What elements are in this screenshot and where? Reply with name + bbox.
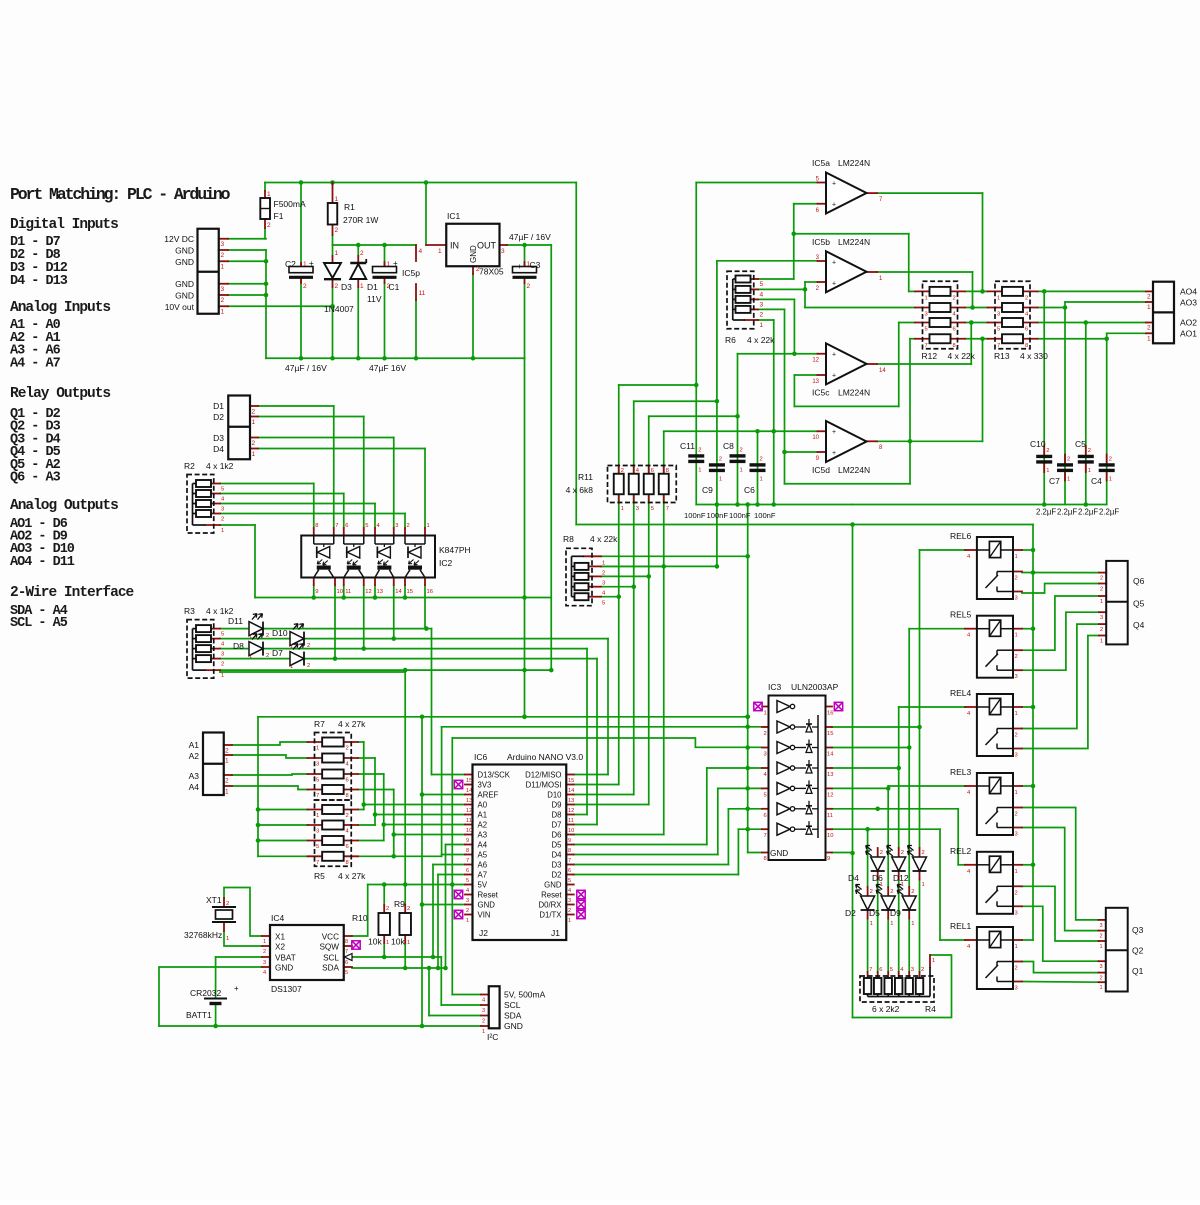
svg-text:+: + (832, 372, 836, 379)
svg-text:2.2µF: 2.2µF (1057, 508, 1077, 517)
svg-text:13: 13 (568, 798, 574, 804)
svg-text:A3: A3 (189, 771, 200, 781)
svg-text:5: 5 (221, 487, 224, 493)
svg-text:4 x 22k: 4 x 22k (948, 351, 976, 361)
svg-text:7: 7 (764, 833, 767, 839)
svg-text:12: 12 (812, 358, 819, 364)
svg-text:D8: D8 (233, 641, 244, 651)
svg-text:2: 2 (335, 283, 339, 290)
svg-text:13: 13 (812, 379, 819, 385)
svg-text:R3: R3 (184, 606, 195, 616)
svg-text:2: 2 (921, 967, 924, 973)
svg-text:IC5p: IC5p (402, 268, 420, 278)
svg-text:2: 2 (221, 252, 225, 259)
svg-text:A1: A1 (478, 811, 488, 820)
svg-text:2: 2 (1100, 576, 1103, 582)
svg-text:IC2: IC2 (439, 558, 453, 568)
svg-text:2: 2 (346, 813, 349, 819)
svg-text:1: 1 (335, 196, 339, 203)
svg-text:1: 1 (1088, 468, 1091, 474)
svg-text:1: 1 (1015, 869, 1018, 875)
svg-text:6: 6 (345, 523, 348, 529)
svg-text:47µF 16V: 47µF 16V (369, 363, 406, 373)
svg-text:1: 1 (387, 261, 391, 268)
svg-text:1: 1 (1046, 468, 1049, 474)
svg-text:REL5: REL5 (950, 610, 972, 620)
svg-text:R10: R10 (352, 913, 368, 923)
svg-text:4 x 1k2: 4 x 1k2 (206, 606, 234, 616)
svg-text:6: 6 (568, 868, 571, 874)
svg-text:2: 2 (387, 283, 391, 290)
svg-text:2: 2 (221, 517, 224, 523)
svg-text:1: 1 (932, 958, 935, 964)
svg-text:7: 7 (316, 860, 319, 866)
svg-text:1: 1 (1015, 944, 1018, 950)
svg-text:Q4: Q4 (1133, 620, 1145, 630)
svg-text:3: 3 (395, 523, 398, 529)
svg-text:REL4: REL4 (950, 688, 972, 698)
svg-text:IC5c: IC5c (812, 387, 830, 397)
svg-text:D10: D10 (547, 791, 562, 800)
svg-text:2: 2 (407, 906, 410, 912)
svg-text:12V DC: 12V DC (164, 234, 194, 244)
svg-text:15: 15 (466, 778, 472, 784)
svg-text:Q1: Q1 (1132, 966, 1144, 976)
svg-text:D3: D3 (213, 433, 224, 443)
svg-text:+: + (832, 429, 836, 436)
svg-text:2: 2 (386, 906, 389, 912)
svg-text:SDA: SDA (504, 1011, 522, 1021)
svg-text:2: 2 (1100, 627, 1103, 633)
svg-text:D2: D2 (845, 908, 856, 918)
svg-text:1: 1 (764, 711, 767, 717)
svg-text:14: 14 (827, 752, 834, 758)
svg-text:D5: D5 (552, 841, 563, 850)
svg-text:2: 2 (1046, 448, 1049, 454)
svg-text:GND: GND (504, 1021, 523, 1031)
svg-text:Analog Inputs: Analog Inputs (10, 300, 110, 316)
svg-text:1: 1 (740, 468, 743, 474)
svg-text:+: + (832, 202, 836, 209)
svg-text:1: 1 (290, 664, 293, 670)
svg-text:Port Matching: PLC - Arduino: Port Matching: PLC - Arduino (10, 185, 231, 204)
svg-text:1: 1 (911, 921, 914, 927)
svg-text:2: 2 (346, 746, 349, 752)
svg-text:6: 6 (346, 844, 349, 850)
svg-text:11: 11 (568, 818, 574, 824)
svg-text:13: 13 (466, 798, 472, 804)
svg-text:3: 3 (1015, 986, 1018, 992)
svg-text:1: 1 (427, 523, 430, 529)
svg-text:3: 3 (316, 829, 319, 835)
svg-text:1: 1 (1015, 633, 1018, 639)
svg-text:A3: A3 (478, 831, 488, 840)
svg-text:11: 11 (466, 818, 472, 824)
svg-text:SCL: SCL (504, 1000, 521, 1010)
svg-text:2: 2 (1088, 448, 1091, 454)
svg-text:5: 5 (997, 327, 1000, 333)
svg-text:5: 5 (345, 970, 348, 976)
svg-text:3: 3 (221, 507, 224, 513)
svg-text:11V: 11V (367, 294, 382, 304)
svg-text:100nF: 100nF (707, 511, 729, 520)
svg-text:2: 2 (266, 653, 269, 659)
svg-text:1: 1 (870, 921, 873, 927)
svg-text:C10: C10 (1030, 439, 1046, 449)
svg-text:D3: D3 (552, 861, 562, 870)
svg-text:5: 5 (890, 967, 893, 973)
svg-text:1: 1 (568, 918, 571, 924)
svg-text:1: 1 (698, 468, 701, 474)
svg-text:LM224N: LM224N (838, 237, 870, 247)
svg-text:SDA: SDA (322, 964, 339, 973)
svg-text:XT1: XT1 (206, 895, 222, 905)
svg-text:1: 1 (225, 758, 229, 765)
svg-text:3: 3 (568, 898, 571, 904)
svg-text:2: 2 (252, 409, 256, 416)
svg-text:R5: R5 (314, 871, 325, 881)
svg-text:1: 1 (360, 283, 364, 290)
svg-text:5: 5 (466, 878, 469, 884)
svg-text:1: 1 (925, 295, 928, 301)
svg-text:5: 5 (316, 844, 319, 850)
svg-text:1: 1 (1015, 711, 1018, 717)
svg-text:GND: GND (469, 245, 478, 263)
svg-text:2.2µF: 2.2µF (1078, 508, 1098, 517)
svg-text:2: 2 (1015, 576, 1018, 582)
svg-text:11: 11 (827, 813, 833, 819)
svg-text:8: 8 (764, 856, 767, 862)
svg-text:9: 9 (466, 838, 469, 844)
svg-text:D3: D3 (341, 282, 352, 292)
svg-text:C4: C4 (1091, 476, 1102, 486)
svg-text:D4: D4 (848, 873, 859, 883)
svg-text:1: 1 (225, 789, 229, 796)
svg-text:12: 12 (568, 808, 574, 814)
svg-text:3V3: 3V3 (478, 781, 492, 790)
svg-text:6: 6 (1025, 327, 1028, 333)
svg-text:4 x 27k: 4 x 27k (338, 871, 366, 881)
svg-text:3: 3 (925, 312, 928, 318)
svg-text:4: 4 (568, 888, 571, 894)
svg-text:REL1: REL1 (950, 921, 972, 931)
svg-text:12: 12 (827, 792, 833, 798)
svg-text:5: 5 (602, 601, 605, 607)
svg-text:7: 7 (925, 343, 928, 349)
svg-text:5: 5 (925, 327, 928, 333)
svg-text:100nF: 100nF (729, 511, 751, 520)
svg-text:2: 2 (568, 908, 571, 914)
svg-text:2: 2 (303, 283, 307, 290)
svg-text:A1: A1 (189, 740, 200, 750)
svg-text:5: 5 (316, 778, 319, 784)
svg-text:GND: GND (175, 291, 194, 301)
svg-text:4 x 6k8: 4 x 6k8 (566, 485, 594, 495)
svg-text:5: 5 (760, 281, 764, 288)
svg-text:5: 5 (221, 632, 224, 638)
svg-text:Q6 - A3: Q6 - A3 (10, 471, 61, 486)
svg-text:IC5b: IC5b (812, 237, 830, 247)
svg-text:1: 1 (226, 936, 229, 942)
svg-text:6: 6 (764, 813, 767, 819)
svg-text:2: 2 (1015, 654, 1018, 660)
svg-text:IN: IN (450, 241, 459, 251)
svg-text:4: 4 (482, 998, 485, 1004)
svg-text:15: 15 (568, 778, 574, 784)
svg-text:+: + (393, 259, 398, 268)
svg-text:A4: A4 (189, 782, 200, 792)
svg-text:Q2: Q2 (1132, 946, 1144, 956)
svg-text:11: 11 (419, 290, 426, 297)
svg-text:1: 1 (407, 940, 410, 946)
svg-text:1: 1 (1147, 335, 1151, 342)
svg-text:3: 3 (764, 752, 767, 758)
svg-text:2: 2 (225, 748, 229, 755)
svg-text:6: 6 (346, 778, 349, 784)
svg-text:1: 1 (1015, 790, 1018, 796)
svg-text:14: 14 (395, 589, 402, 595)
svg-text:SCL - A5: SCL - A5 (10, 616, 68, 631)
svg-text:5: 5 (764, 792, 767, 798)
svg-text:REL2: REL2 (950, 846, 972, 856)
svg-text:+: + (832, 181, 836, 188)
svg-text:1: 1 (1109, 477, 1112, 483)
svg-text:5V: 5V (478, 881, 488, 890)
svg-text:AO3: AO3 (1180, 298, 1197, 308)
svg-text:D1/TX: D1/TX (539, 911, 562, 920)
svg-text:R4: R4 (925, 1004, 936, 1014)
svg-text:3: 3 (1015, 674, 1018, 680)
svg-text:10: 10 (812, 435, 819, 441)
svg-text:1: 1 (602, 561, 605, 567)
svg-text:D4: D4 (552, 851, 563, 860)
svg-text:2: 2 (335, 227, 339, 234)
svg-text:3: 3 (1015, 832, 1018, 838)
svg-text:1: 1 (252, 451, 256, 458)
svg-text:2: 2 (1067, 457, 1070, 463)
svg-text:J2: J2 (479, 928, 488, 938)
svg-text:2: 2 (1015, 890, 1018, 896)
svg-text:10: 10 (466, 828, 472, 834)
svg-text:3: 3 (221, 286, 225, 293)
svg-text:A0: A0 (478, 801, 488, 810)
svg-text:2: 2 (226, 901, 229, 907)
svg-text:GND: GND (175, 246, 194, 256)
svg-text:2: 2 (760, 311, 764, 318)
svg-text:1: 1 (1100, 985, 1103, 991)
svg-text:ULN2003AP: ULN2003AP (791, 682, 839, 692)
svg-text:R6: R6 (725, 335, 736, 345)
svg-text:GND: GND (175, 279, 194, 289)
svg-text:3: 3 (997, 312, 1000, 318)
svg-text:8: 8 (466, 848, 469, 854)
svg-text:2: 2 (1109, 457, 1112, 463)
svg-text:R7: R7 (314, 719, 325, 729)
svg-text:F500mA: F500mA (274, 199, 306, 209)
svg-text:270R 1W: 270R 1W (343, 215, 378, 225)
svg-text:A4: A4 (478, 841, 488, 850)
svg-text:BATT1: BATT1 (186, 1010, 212, 1020)
svg-text:D9: D9 (552, 801, 562, 810)
svg-text:X2: X2 (275, 943, 285, 952)
svg-text:4: 4 (419, 248, 423, 255)
svg-text:8: 8 (568, 848, 571, 854)
svg-text:1: 1 (1100, 599, 1103, 605)
svg-text:1: 1 (290, 644, 293, 650)
svg-text:1: 1 (221, 673, 224, 679)
svg-text:Reset: Reset (541, 891, 562, 900)
svg-text:AO1: AO1 (1180, 329, 1197, 339)
svg-text:7: 7 (666, 506, 669, 512)
svg-text:R8: R8 (563, 534, 574, 544)
svg-text:7: 7 (335, 523, 338, 529)
svg-text:IC3: IC3 (768, 682, 782, 692)
svg-text:6: 6 (953, 327, 956, 333)
svg-text:3: 3 (482, 1008, 485, 1014)
svg-text:2: 2 (870, 889, 873, 895)
svg-text:8: 8 (346, 793, 349, 799)
svg-text:1: 1 (335, 250, 339, 257)
svg-text:13: 13 (377, 589, 383, 595)
svg-text:DS1307: DS1307 (271, 984, 302, 994)
svg-text:3: 3 (1015, 910, 1018, 916)
svg-text:D7: D7 (552, 821, 562, 830)
svg-text:2: 2 (466, 908, 469, 914)
svg-text:10: 10 (337, 589, 343, 595)
svg-text:Arduino NANO V3.0: Arduino NANO V3.0 (507, 752, 583, 762)
svg-text:5: 5 (365, 523, 368, 529)
svg-text:5: 5 (651, 506, 654, 512)
svg-text:2: 2 (621, 468, 624, 474)
svg-text:1: 1 (221, 263, 225, 270)
svg-text:3: 3 (221, 241, 225, 248)
svg-text:1: 1 (527, 261, 531, 268)
svg-text:REL6: REL6 (950, 531, 972, 541)
svg-text:D2: D2 (213, 412, 224, 422)
svg-text:8: 8 (953, 343, 956, 349)
svg-text:2: 2 (602, 570, 605, 576)
svg-text:Q5: Q5 (1133, 599, 1145, 609)
svg-text:4: 4 (263, 970, 266, 976)
svg-text:8: 8 (666, 468, 669, 474)
svg-text:2: 2 (225, 778, 229, 785)
svg-text:1: 1 (386, 940, 389, 946)
svg-text:7: 7 (869, 967, 872, 973)
svg-text:2: 2 (740, 448, 743, 454)
svg-text:6 x 2k2: 6 x 2k2 (872, 1004, 900, 1014)
svg-text:I²C: I²C (487, 1032, 498, 1042)
svg-text:1: 1 (997, 295, 1000, 301)
svg-text:D13/SCK: D13/SCK (478, 771, 511, 780)
svg-text:2: 2 (263, 949, 266, 955)
svg-text:R1: R1 (344, 202, 355, 212)
svg-text:2: 2 (221, 662, 224, 668)
svg-text:D11: D11 (228, 616, 243, 626)
svg-text:7: 7 (316, 793, 319, 799)
svg-text:C6: C6 (744, 485, 755, 495)
svg-text:1: 1 (880, 882, 883, 888)
svg-text:A5: A5 (478, 851, 488, 860)
svg-text:4 x 22k: 4 x 22k (590, 534, 618, 544)
svg-text:3: 3 (911, 967, 914, 973)
svg-text:A7: A7 (478, 871, 488, 880)
svg-text:1: 1 (249, 634, 252, 640)
svg-text:CR2032: CR2032 (190, 988, 221, 998)
svg-text:12: 12 (466, 808, 472, 814)
svg-text:2: 2 (760, 457, 763, 463)
svg-text:2: 2 (1100, 976, 1103, 982)
svg-text:1: 1 (438, 248, 442, 255)
svg-text:3: 3 (501, 248, 505, 255)
svg-text:GND: GND (478, 901, 496, 910)
svg-text:8: 8 (315, 523, 318, 529)
svg-text:100nF: 100nF (754, 511, 776, 520)
svg-text:7: 7 (466, 858, 469, 864)
svg-text:1: 1 (482, 1029, 485, 1035)
svg-text:D10: D10 (272, 628, 288, 638)
svg-text:3: 3 (466, 898, 469, 904)
svg-text:5V, 500mA: 5V, 500mA (504, 990, 546, 1000)
svg-text:1: 1 (1100, 639, 1103, 645)
svg-text:D0/RX: D0/RX (539, 901, 563, 910)
svg-text:8: 8 (345, 939, 348, 945)
svg-text:F1: F1 (274, 211, 284, 221)
svg-text:2: 2 (880, 850, 883, 856)
svg-text:15: 15 (827, 731, 833, 737)
svg-text:2: 2 (1147, 293, 1151, 300)
svg-text:2: 2 (267, 222, 271, 229)
svg-text:3: 3 (602, 580, 605, 586)
svg-text:1: 1 (890, 921, 893, 927)
svg-text:R12: R12 (922, 351, 938, 361)
svg-text:D9: D9 (890, 908, 901, 918)
svg-text:47µF / 16V: 47µF / 16V (509, 232, 551, 242)
svg-text:K847PH: K847PH (439, 545, 471, 555)
svg-text:2: 2 (307, 643, 310, 649)
svg-text:9: 9 (568, 838, 571, 844)
svg-text:10k: 10k (391, 937, 405, 947)
svg-text:LM224N: LM224N (838, 387, 870, 397)
svg-text:2: 2 (252, 440, 256, 447)
svg-text:9: 9 (827, 856, 830, 862)
svg-text:J1: J1 (551, 928, 560, 938)
svg-text:Relay Outputs: Relay Outputs (10, 386, 110, 402)
svg-text:2: 2 (911, 889, 914, 895)
svg-text:2: 2 (407, 523, 410, 529)
svg-text:Digital Inputs: Digital Inputs (10, 217, 118, 233)
svg-text:D4 - D13: D4 - D13 (10, 274, 68, 289)
svg-text:7: 7 (568, 858, 571, 864)
svg-text:A2: A2 (478, 821, 488, 830)
svg-text:78X05: 78X05 (479, 267, 504, 277)
svg-text:R13: R13 (994, 351, 1010, 361)
svg-text:2.2µF: 2.2µF (1036, 508, 1056, 517)
svg-text:16: 16 (827, 711, 833, 717)
svg-text:1: 1 (252, 419, 256, 426)
svg-text:D6: D6 (552, 831, 562, 840)
svg-text:R9: R9 (394, 899, 405, 909)
svg-text:8: 8 (1025, 343, 1028, 349)
svg-text:4 x 27k: 4 x 27k (338, 719, 366, 729)
svg-text:47µF / 16V: 47µF / 16V (285, 363, 327, 373)
svg-text:+: + (832, 280, 836, 287)
svg-text:2: 2 (901, 850, 904, 856)
svg-text:1: 1 (316, 746, 319, 752)
svg-text:1: 1 (1147, 304, 1151, 311)
svg-text:13: 13 (827, 772, 833, 778)
svg-text:D4: D4 (213, 444, 224, 454)
svg-text:2: 2 (1100, 934, 1103, 940)
